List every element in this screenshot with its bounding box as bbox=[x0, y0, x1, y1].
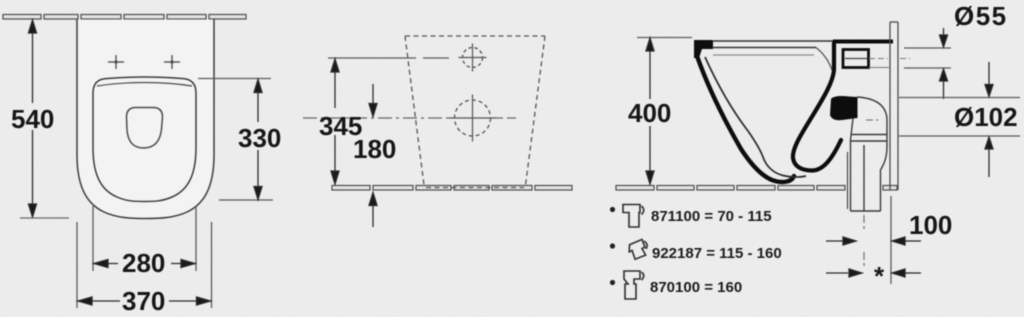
dimension 540 bbox=[20, 20, 69, 218]
legend icon 2: angled outlet connector bbox=[628, 239, 647, 260]
dimension 180 bbox=[369, 84, 377, 227]
row * bbox=[826, 272, 848, 274]
dimension Ø102 bbox=[899, 62, 1020, 177]
dimension 330 bbox=[198, 79, 273, 201]
water supply circle (rear view) bbox=[463, 48, 483, 68]
right view: floor bar bbox=[616, 186, 897, 191]
side view: top rim thin lines bbox=[712, 41, 834, 48]
fixing hole cross right bbox=[164, 55, 180, 69]
legend bullet 1 bbox=[610, 207, 615, 212]
svg-text:370: 370 bbox=[122, 286, 165, 316]
outlet circle Ø102 (rear view) bbox=[455, 100, 491, 136]
svg-text:400: 400 bbox=[628, 98, 671, 128]
seat outer outline (top view) bbox=[93, 77, 196, 202]
svg-text:871100 = 70 - 115: 871100 = 70 - 115 bbox=[651, 208, 772, 225]
svg-text:540: 540 bbox=[11, 104, 54, 134]
svg-text:Ø55: Ø55 bbox=[954, 1, 1008, 31]
row 100 bbox=[826, 240, 844, 242]
dimension 100 and * bbox=[826, 196, 921, 284]
svg-text:100: 100 bbox=[909, 210, 952, 240]
middle view: floor bar bbox=[332, 186, 572, 191]
outlet center dash-dot line bbox=[303, 117, 516, 119]
side view: thick top line to wall bbox=[833, 40, 893, 44]
side view: water inlet spigot box bbox=[843, 50, 869, 68]
side view: outlet elbow outline bbox=[848, 97, 888, 211]
fixing hole cross left bbox=[108, 55, 124, 69]
legend icon 1: straight outlet connector bbox=[623, 205, 644, 228]
svg-text:922187 = 115 - 160: 922187 = 115 - 160 bbox=[652, 245, 782, 262]
outlet hidden lines through wall bbox=[869, 58, 910, 60]
seat hinge double line bbox=[97, 83, 192, 87]
dimension 345 bbox=[331, 59, 339, 184]
dimension 280 bbox=[93, 206, 196, 271]
toilet ceramic outline (top view) bbox=[77, 20, 214, 219]
svg-text:*: * bbox=[874, 261, 885, 291]
dimension Ø55 bbox=[904, 28, 951, 99]
side view: bowl front outer edge (thick) bbox=[697, 56, 794, 182]
side view: bowl inner front line (thin) bbox=[705, 57, 806, 177]
side view toilet: rim front block bbox=[694, 40, 713, 58]
svg-text:330: 330 bbox=[238, 123, 281, 153]
wall plate (side view) bbox=[890, 22, 898, 190]
svg-text:280: 280 bbox=[122, 248, 165, 278]
svg-text:180: 180 bbox=[353, 134, 396, 164]
side view: rear inner rim curve bbox=[816, 48, 832, 71]
side view: rear edge + trapway S (thick) bbox=[793, 43, 841, 171]
svg-text:Ø102: Ø102 bbox=[954, 102, 1018, 132]
legend bullet 2 bbox=[610, 243, 615, 248]
rear view dashed outline (trapezoid) bbox=[405, 36, 545, 188]
dimension 400 bbox=[637, 38, 692, 185]
wall bar (top view rear wall) bbox=[3, 15, 246, 20]
seat inner opening bbox=[127, 108, 163, 149]
supply reference line bbox=[328, 57, 449, 59]
svg-text:870100 = 160: 870100 = 160 bbox=[650, 279, 742, 296]
side view: outlet horn (filled) bbox=[830, 96, 858, 120]
legend icon 3: offset outlet connector bbox=[624, 271, 644, 299]
dimension 370 bbox=[77, 222, 212, 308]
legend bullet 3 bbox=[610, 280, 615, 285]
